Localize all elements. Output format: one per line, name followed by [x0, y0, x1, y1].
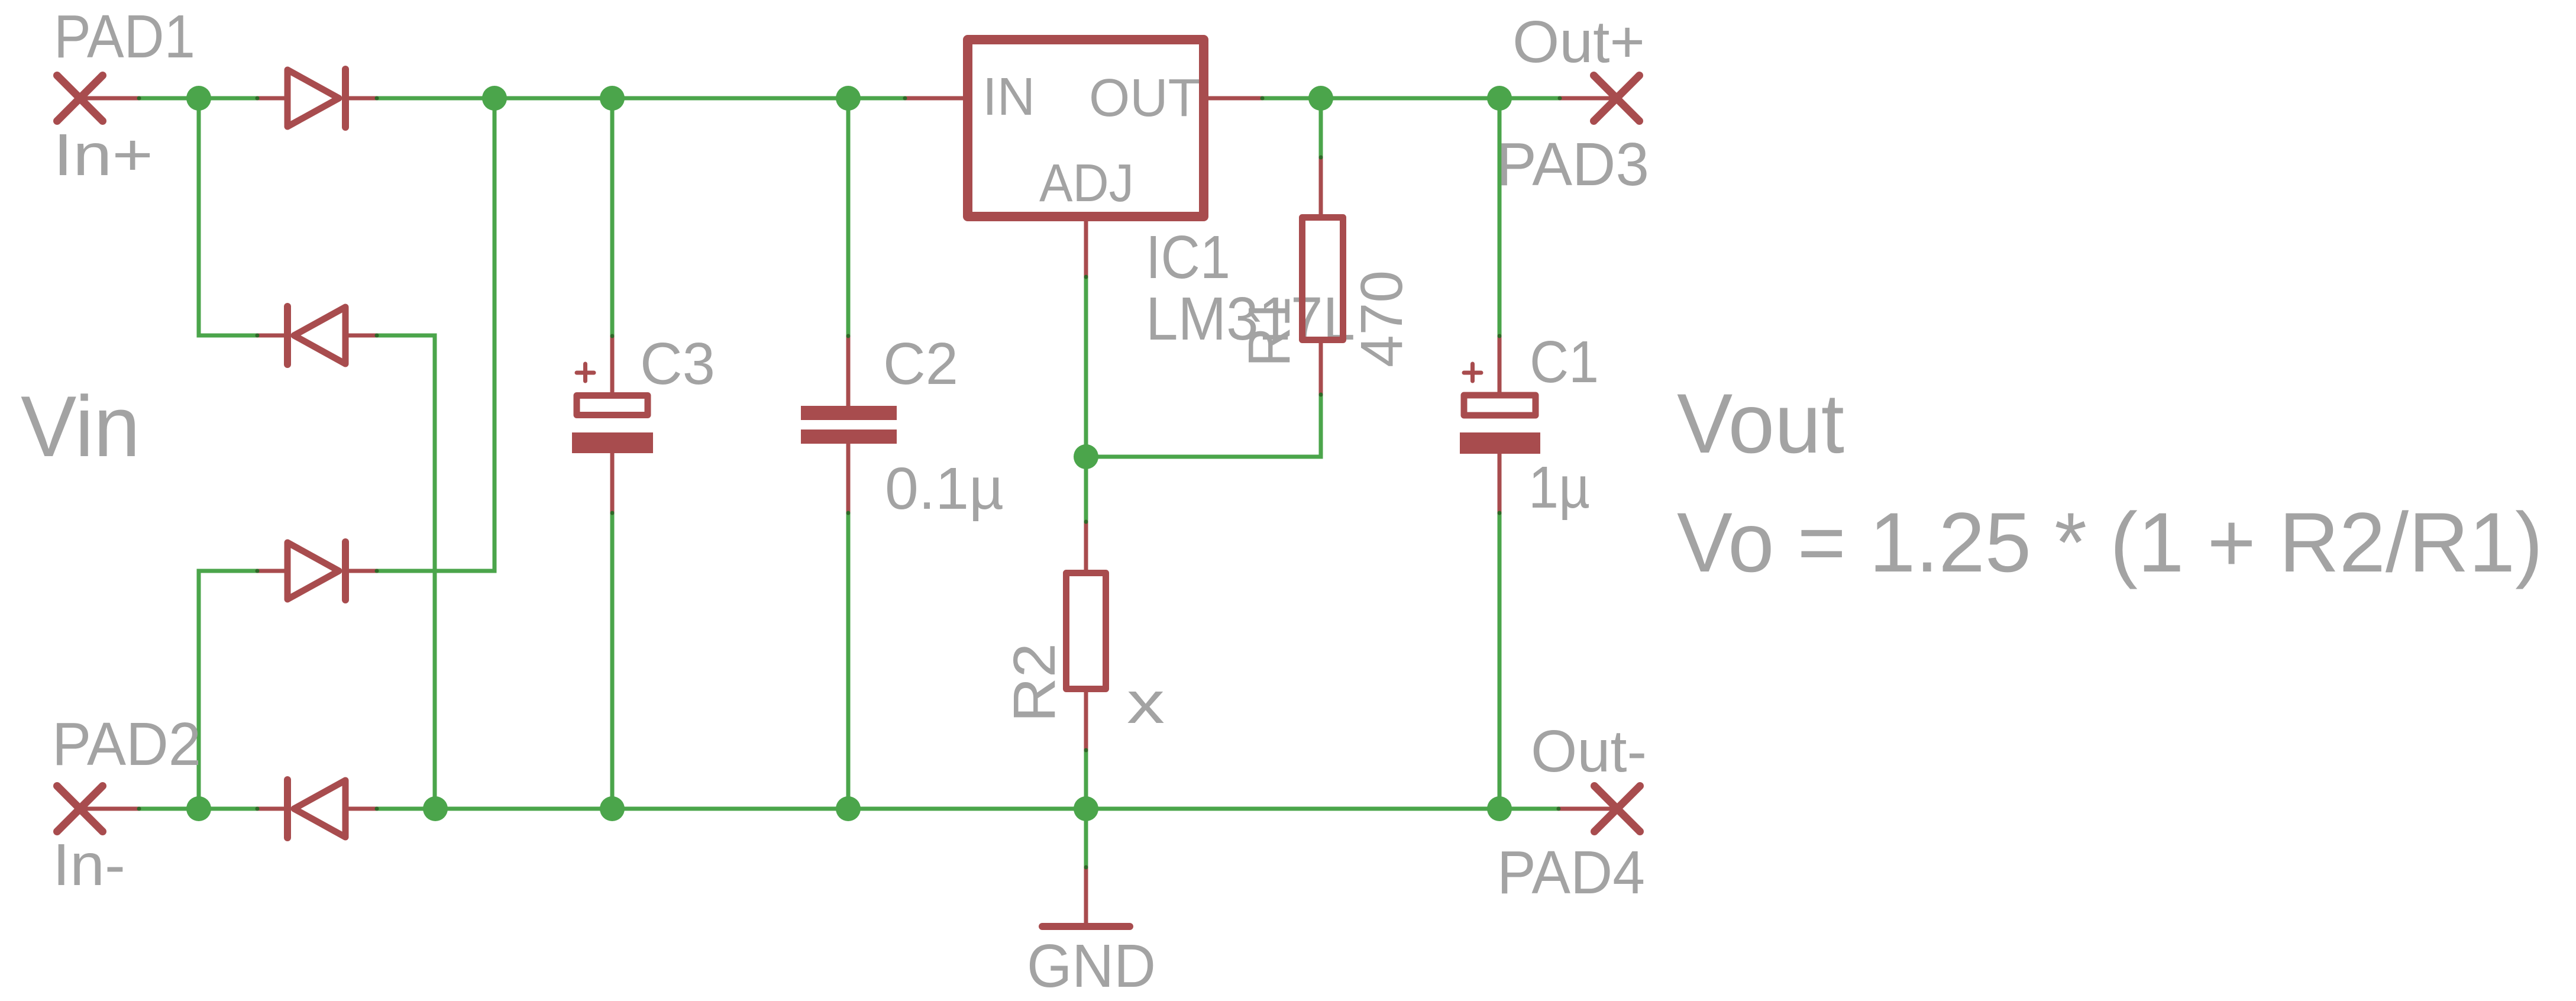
wire top rail middle	[377, 96, 905, 101]
svg-text:PAD2: PAD2	[52, 710, 201, 778]
svg-text:IN: IN	[982, 67, 1035, 127]
svg-text:Out+: Out+	[1512, 9, 1645, 75]
wire In- branch up to D3	[199, 571, 257, 809]
svg-text:R2: R2	[1001, 643, 1068, 722]
svg-text:PAD1: PAD1	[54, 2, 195, 70]
svg-text:Out-: Out-	[1531, 718, 1647, 784]
pin ADJ of IC1	[1084, 219, 1088, 277]
resistor R2	[1066, 522, 1106, 750]
svg-text:C3: C3	[640, 331, 715, 397]
ground GND symbol	[1042, 867, 1130, 926]
diode D2	[257, 306, 377, 364]
junction node bottom rail GND	[1074, 796, 1098, 821]
wire top rail right	[1262, 96, 1560, 101]
pad PAD4	[1559, 786, 1640, 832]
wire R1 top	[1319, 98, 1323, 157]
svg-text:C1: C1	[1530, 329, 1599, 395]
svg-text:PAD4: PAD4	[1497, 838, 1645, 906]
pad PAD3	[1560, 76, 1640, 121]
wire GND drop	[1084, 809, 1088, 867]
svg-text:Vin: Vin	[21, 378, 140, 474]
wire C2 bottom	[846, 513, 851, 809]
svg-text:470: 470	[1349, 270, 1415, 367]
wire C2 top	[846, 98, 851, 336]
pad PAD2	[57, 786, 140, 832]
wire R1 bottom to ADJ node	[1086, 395, 1321, 457]
wire bottom rail main	[377, 807, 1559, 811]
capacitor C2	[801, 336, 897, 513]
junction node top rail x336	[186, 86, 211, 111]
junction node bottom rail x736	[423, 796, 448, 821]
junction node top rail x836	[482, 86, 507, 111]
svg-text:In-: In-	[53, 832, 125, 898]
svg-text:x: x	[1127, 670, 1165, 736]
wire bottom rail left	[139, 807, 257, 811]
diode D1	[257, 69, 377, 127]
svg-text:0.1µ: 0.1µ	[885, 456, 1004, 522]
wire C1 bottom	[1498, 513, 1502, 809]
junction node bottom rail C3	[600, 796, 625, 821]
junction node bottom rail C2	[836, 796, 861, 821]
pad PAD1	[57, 76, 140, 121]
junction node top rail C1	[1487, 86, 1512, 111]
diode D4	[257, 780, 377, 838]
wire C3 bottom	[610, 513, 615, 809]
resistor R1	[1302, 157, 1343, 395]
svg-text:1µ: 1µ	[1528, 454, 1590, 521]
junction node bottom rail C1	[1487, 796, 1512, 821]
wire ADJ node vertical	[1084, 277, 1088, 522]
wire D3 cathode up to top rail	[377, 98, 494, 571]
svg-text:ADJ: ADJ	[1039, 154, 1134, 213]
svg-text:PAD3: PAD3	[1497, 130, 1649, 198]
op-amp IC1 regulator box	[968, 40, 1204, 217]
svg-text:OUT: OUT	[1089, 69, 1200, 128]
svg-text:R1: R1	[1236, 296, 1302, 367]
junction node top rail R1	[1308, 86, 1333, 111]
wire D2 anode down to bottom rail	[377, 335, 435, 809]
capacitor C3	[572, 336, 653, 513]
wire C1 top	[1498, 98, 1502, 336]
diode D3	[257, 542, 377, 600]
junction node bottom rail x336	[186, 796, 211, 821]
wire In+ branch down to D2	[199, 98, 257, 335]
pin OUT of IC1	[1206, 96, 1262, 101]
svg-text:C2: C2	[883, 331, 958, 397]
svg-text:IC1: IC1	[1146, 223, 1230, 291]
junction node top rail C2	[836, 86, 861, 111]
junction node top rail C3	[600, 86, 625, 111]
svg-text:GND: GND	[1027, 932, 1156, 1000]
junction node ADJ	[1074, 444, 1098, 469]
svg-text:Vout: Vout	[1677, 377, 1844, 471]
svg-text:Vo = 1.25 * (1 + R2/R1): Vo = 1.25 * (1 + R2/R1)	[1677, 496, 2543, 590]
wire C3 top	[610, 98, 615, 336]
wire top rail left	[139, 96, 257, 101]
capacitor C1	[1460, 336, 1540, 513]
wire R2 bottom to rail	[1084, 750, 1088, 809]
svg-text:In+: In+	[53, 122, 153, 188]
pin connection dots	[137, 96, 1562, 870]
pin IN of IC1	[905, 96, 965, 101]
